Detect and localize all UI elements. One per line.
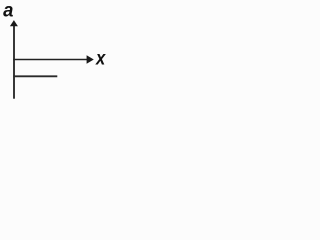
a-axis arrowhead (10, 20, 18, 26)
x-axis (horizontal) wire (13, 59, 88, 61)
short horizontal segment (13, 75, 57, 77)
a-axis (vertical) wire (13, 24, 15, 99)
svg-text:x: x (95, 48, 106, 69)
svg-text:a: a (3, 1, 14, 22)
x-axis arrowhead (87, 55, 94, 63)
